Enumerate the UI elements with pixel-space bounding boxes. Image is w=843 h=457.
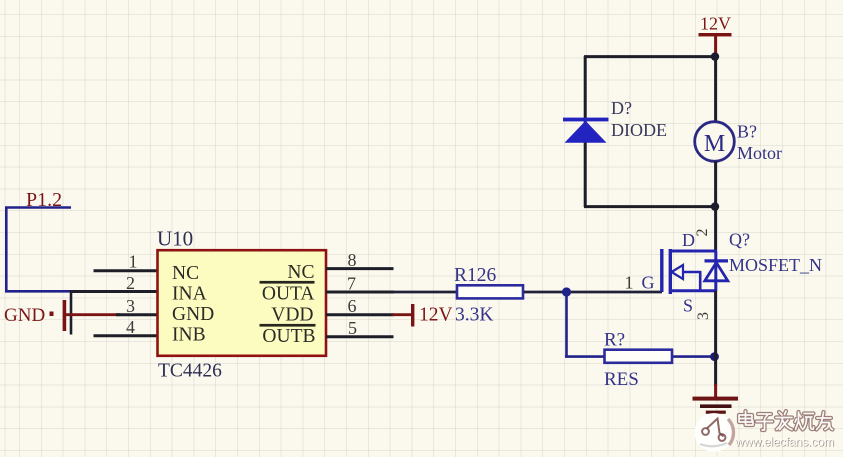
svg-text:Q?: Q? (729, 230, 750, 250)
svg-text:GND: GND (4, 305, 45, 326)
svg-text:4: 4 (126, 317, 135, 337)
svg-text:VDD: VDD (271, 304, 313, 325)
svg-text:3.3K: 3.3K (455, 304, 493, 325)
svg-text:NC: NC (287, 262, 314, 283)
svg-text:M: M (704, 131, 725, 157)
svg-text:R126: R126 (454, 265, 497, 286)
svg-text:2: 2 (694, 229, 711, 237)
svg-text:Motor: Motor (737, 143, 782, 163)
svg-text:D?: D? (611, 98, 632, 118)
svg-text:TC4426: TC4426 (158, 361, 222, 382)
svg-text:RES: RES (604, 369, 639, 390)
svg-text:GND: GND (172, 304, 214, 325)
svg-text:12V: 12V (700, 14, 731, 34)
svg-text:DIODE: DIODE (611, 120, 667, 140)
svg-text:B?: B? (737, 122, 757, 142)
svg-text:8: 8 (348, 250, 357, 270)
svg-text:R?: R? (604, 330, 625, 351)
svg-text:1: 1 (129, 252, 138, 272)
svg-text:7: 7 (347, 273, 356, 293)
svg-text:OUTA: OUTA (262, 283, 315, 304)
svg-text:3: 3 (695, 312, 712, 320)
svg-text:6: 6 (348, 296, 357, 316)
svg-text:12V: 12V (419, 305, 453, 326)
svg-text:3: 3 (126, 296, 135, 316)
svg-text:OUTB: OUTB (262, 326, 315, 347)
svg-text:P1.2: P1.2 (26, 189, 62, 211)
svg-text:INA: INA (172, 283, 207, 304)
svg-text:G: G (642, 273, 655, 293)
svg-text:5: 5 (348, 318, 357, 338)
svg-text:2: 2 (126, 273, 135, 293)
svg-text:MOSFET_N: MOSFET_N (729, 255, 822, 275)
svg-text:www.elecfans.com: www.elecfans.com (734, 435, 834, 449)
svg-text:1: 1 (625, 273, 634, 293)
svg-text:U10: U10 (157, 227, 193, 251)
svg-text:INB: INB (172, 324, 206, 345)
svg-text:S: S (683, 296, 693, 316)
svg-text:NC: NC (172, 263, 199, 284)
